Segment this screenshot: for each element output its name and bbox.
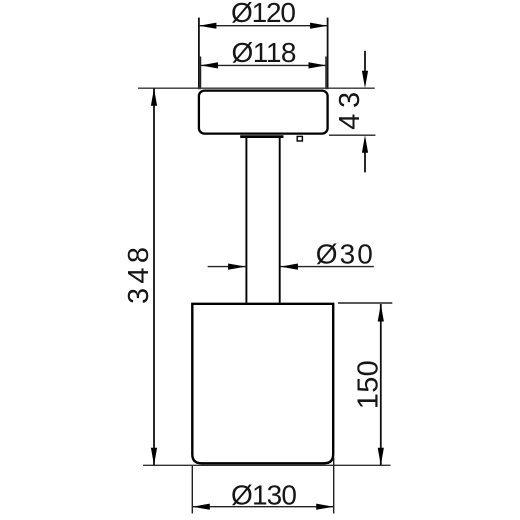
lamp body outline [192,304,333,464]
dimension D118 extension line left [200,57,202,90]
svg-text:348: 348 [123,247,155,304]
dimension D30 right line [280,264,373,270]
stem right wire [279,138,281,303]
dimension 150 line [378,304,384,465]
bottom extension baseline [143,464,391,466]
extension line at head bottom right [329,134,375,136]
svg-text:Ø120: Ø120 [231,0,296,28]
svg-text:150: 150 [353,360,385,409]
dimension D120 line [199,23,328,29]
dimension 348 line [151,88,157,465]
stem left wire [245,138,247,303]
extension line at body top right [338,302,392,304]
dimension D118 line [201,62,327,68]
lamp head (shade) outline [199,91,328,134]
svg-text:Ø30: Ø30 [316,239,373,270]
dimension 43 upper line [362,51,368,88]
dimension D30 left line [208,264,247,270]
stem collar [240,135,283,138]
dimension D120 extension line left [198,18,200,90]
dimension D118 extension line right [325,57,327,90]
dimension 43 lower line [362,135,368,172]
dimension D130 extension line right [333,458,335,514]
top extension line for 348 and 43 [138,87,375,89]
svg-text:Ø130: Ø130 [231,479,297,510]
dimension D130 extension line left [191,466,193,514]
switch button [297,136,302,141]
svg-text:43: 43 [334,92,366,130]
dimension D120 extension line right [327,18,329,90]
svg-text:Ø118: Ø118 [232,37,297,68]
dimension D130 line [192,504,333,510]
